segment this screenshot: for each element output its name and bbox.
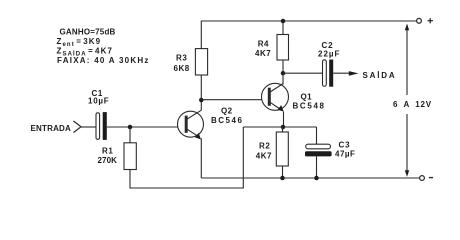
svg-text:Q1: Q1 xyxy=(301,92,313,101)
svg-text:6 A 12V: 6 A 12V xyxy=(393,100,432,109)
wire R1 bottom feedback xyxy=(130,127,243,188)
input arrow xyxy=(74,121,82,133)
resistor R2 xyxy=(256,132,288,166)
svg-text:22µF: 22µF xyxy=(318,50,340,59)
spec text GANHO xyxy=(57,28,150,66)
wire emitter node horizontal xyxy=(243,126,316,128)
capacitor C3 xyxy=(305,141,355,159)
node R2/rail junction xyxy=(280,176,285,181)
transistor Q2 xyxy=(178,107,244,140)
node SAIDA label xyxy=(363,71,397,80)
node R4/C2/Q1 junction xyxy=(281,71,286,76)
wire input to C1 xyxy=(81,126,96,128)
svg-text:ENTRADA: ENTRADA xyxy=(31,124,72,133)
wire junction to C2 xyxy=(283,72,322,74)
node C3/rail junction xyxy=(314,176,319,181)
terminal + xyxy=(417,18,433,23)
node +rail/R4 junction xyxy=(281,19,286,24)
svg-text:BC548: BC548 xyxy=(293,101,326,110)
wire Q1 collector xyxy=(282,73,284,84)
transistor Q1 xyxy=(262,83,326,111)
capacitor C2 xyxy=(318,41,340,87)
wire R4 bottom xyxy=(282,60,284,73)
wire R4 top xyxy=(282,21,284,35)
svg-text:Q2: Q2 xyxy=(221,107,233,116)
svg-text:GANHO=75dB: GANHO=75dB xyxy=(60,28,116,37)
svg-text:R3: R3 xyxy=(176,54,187,63)
svg-text:BC546: BC546 xyxy=(211,116,243,125)
node Q1 emitter junction xyxy=(281,125,286,130)
wire C1 to Q2 base xyxy=(107,126,185,128)
svg-text:4K7: 4K7 xyxy=(255,49,271,58)
wire junction to Q1 base xyxy=(201,99,268,101)
node junction C1/R1 xyxy=(128,125,133,130)
wire C3 top xyxy=(316,127,318,144)
svg-text:10µF: 10µF xyxy=(88,97,109,106)
ground rail wire xyxy=(201,177,419,179)
supply range arrow 6 A 12V xyxy=(393,24,432,177)
wire C2 to SAIDA arrow xyxy=(333,72,350,74)
svg-text:SAİDA: SAİDA xyxy=(363,71,397,80)
svg-text:R2: R2 xyxy=(259,141,270,150)
svg-text:47µF: 47µF xyxy=(335,149,355,158)
terminal - xyxy=(420,176,434,181)
svg-text:C2: C2 xyxy=(322,41,334,50)
resistor R3 xyxy=(174,49,208,75)
node ENTRADA label xyxy=(31,124,72,133)
svg-text:6K8: 6K8 xyxy=(174,64,190,73)
wire Q2 emitter to ground rail xyxy=(200,138,202,178)
wire R3 top to +rail xyxy=(201,21,416,49)
svg-text:4K7: 4K7 xyxy=(256,151,272,160)
resistor R4 xyxy=(255,35,289,61)
svg-text:270K: 270K xyxy=(98,156,118,165)
wire junction to R1 xyxy=(129,127,131,143)
svg-text:R4: R4 xyxy=(258,40,269,49)
wire Q2 collector xyxy=(200,100,202,110)
svg-text:FAIXA: 40 A 30KHz: FAIXA: 40 A 30KHz xyxy=(57,56,150,65)
svg-text:R1: R1 xyxy=(102,147,113,156)
wire C3 bottom xyxy=(316,156,318,178)
wire Q1 emitter xyxy=(283,112,285,127)
wire R2 bottom xyxy=(282,166,284,178)
wire R2 top xyxy=(282,127,284,132)
wire R3 bottom xyxy=(200,75,202,100)
node Q2 collector junction xyxy=(199,98,204,103)
capacitor C1 xyxy=(88,89,109,140)
resistor R1 xyxy=(98,143,137,170)
